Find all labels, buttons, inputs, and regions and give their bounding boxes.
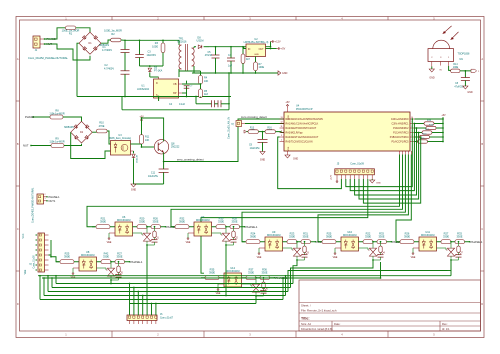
svg-text:390E: 390E [100,220,106,224]
svg-text:10uF/25v: 10uF/25v [250,147,261,150]
net label PHASE 2 [32,116,33,117]
wire [244,47,246,49]
svg-text:D: D [17,302,19,306]
wire [140,65,164,67]
wire [164,119,284,162]
bus wire long A2 [42,277,381,279]
svg-text:LNK62104: LNK62104 [137,88,149,91]
svg-text:PHASE-1: PHASE-1 [246,225,258,229]
bus wire long A1 [38,275,451,277]
svg-text:330E: 330E [231,220,237,224]
svg-text:C2IN-/AN5/RC1: C2IN-/AN5/RC1 [391,123,409,126]
triac Q3 [283,247,293,249]
svg-text:330E: 330E [302,235,308,239]
svg-text:KiCad E.D.A. kicad (8.0.8): KiCad E.D.A. kicad (8.0.8) [301,327,332,331]
svg-text:PHASE: PHASE [25,115,34,119]
svg-text:4N35_Zero_Crossing: 4N35_Zero_Crossing [109,137,132,140]
wire [107,131,110,144]
svg-text:Conn_01x09: Conn_01x09 [350,162,364,165]
wire [33,116,50,118]
svg-text:NUT: NUT [23,144,29,148]
bus wire L2 U10 [52,287,291,289]
wire [449,66,451,70]
svg-text:D: D [481,302,483,306]
power VEE U9 [259,247,265,249]
snubber capacitor U9 [304,253,306,255]
triac Q5 [97,267,107,269]
svg-text:A: A [481,57,483,61]
wire J5 pin8 to channel 7 [201,179,368,273]
net label NUT 2 [30,145,31,146]
wire [225,244,227,245]
power VEE U10 [335,247,341,249]
wire RA4 wrap to J5 pin2 [278,137,342,189]
svg-text:VCC: VCC [23,233,25,238]
svg-text:Conn_01x03_AN_IN: Conn_01x03_AN_IN [228,117,231,139]
snubber capacitor U12 [263,289,265,291]
net label PHASE-1 [274,277,275,278]
svg-text:OUT: OUT [259,49,264,51]
bus wire L4 U7 [44,295,286,297]
wire [64,144,82,146]
wire secondary ground rail [192,72,278,74]
wire [31,145,51,147]
svg-text:zero crossing_detect: zero crossing_detect [241,115,267,119]
svg-text:GND: GND [131,189,137,192]
snubber resistor U7 [233,226,235,228]
svg-text:Title:: Title: [301,316,310,320]
border column ticks [111,17,113,21]
snubber resistor U6 [154,226,156,228]
global label D [471,69,477,72]
svg-text:+12V: +12V [331,174,333,180]
svg-text:330E: 330E [261,271,267,275]
net label PHASE-1 [469,241,470,242]
svg-text:GND: GND [254,54,259,56]
net label PHASE [44,38,45,39]
wire [150,76,159,78]
svg-text:100E: 100E [259,66,265,69]
wire channel feed 1 [399,151,401,155]
power GND C8 [463,86,468,89]
svg-text:P1A/CCP1/RC5: P1A/CCP1/RC5 [391,141,409,144]
wire [266,48,277,50]
svg-text:PHASE-1: PHASE-1 [471,240,483,244]
power GND J5 [371,179,373,180]
resistor R16 [415,136,420,138]
power VEE U11 [413,247,419,249]
svg-text:1: 1 [44,198,45,200]
diode D4 [131,150,134,152]
svg-text:C: C [17,227,19,231]
svg-text:D: D [156,82,158,85]
border row ticks [16,100,20,102]
wire [92,131,96,133]
resistor R7 [255,57,257,63]
svg-text:FB: FB [173,83,176,86]
triac Q1 [133,232,143,234]
svg-text:Conn_01x07: Conn_01x07 [160,318,174,320]
power VEE U8 [73,267,79,269]
snubber capacitor U7 [233,238,235,240]
svg-text:390E: 390E [250,235,256,239]
wire J3 vertical [50,240,52,257]
power +12V J5 pin1 [336,181,338,183]
resistor R6 [242,47,244,54]
transistor Q8 [154,140,168,154]
svg-text:4k3: 4k3 [204,93,209,96]
wire [142,146,155,148]
wire [179,70,201,72]
wire J3 pin3 to channel U8 [49,255,60,262]
connector J1 [33,36,40,48]
svg-text:330E: 330E [378,235,384,239]
svg-text:330E: 330E [289,235,295,239]
resistor R18 [415,127,427,129]
svg-text:390E: 390E [64,255,70,259]
wire [101,40,111,43]
triac Q6 [242,283,252,285]
svg-text:VEE: VEE [257,256,262,259]
svg-text:BP: BP [173,92,177,95]
svg-text:Size: A4: Size: A4 [301,322,311,326]
wire RC0 [415,118,444,120]
title block [299,280,481,331]
wire ground return rail [122,109,229,111]
power VEE U12 [218,283,224,285]
wire channel feed 3 [404,151,406,155]
power VEE U7 [188,232,194,234]
MCU right pins [410,118,415,120]
svg-text:GND: GND [376,182,381,184]
snubber resistor U9 [304,241,306,243]
power GND C9 [260,152,265,155]
svg-text:R14: R14 [453,64,458,66]
net label NUT1 [46,200,47,201]
triac Q2 [212,232,222,234]
wire secondary rail [209,46,271,48]
svg-text:US1M: US1M [197,40,204,43]
svg-text:RA4/AN3/T1G/OSC2/CLKOUT: RA4/AN3/T1G/OSC2/CLKOUT [286,136,319,139]
svg-text:330E: 330E [248,271,254,275]
resistor R1 [65,26,75,30]
svg-text:B: B [481,142,483,146]
power GND [278,71,281,75]
power VEE U6 [109,232,115,234]
svg-text:TSOP1838: TSOP1838 [458,52,470,55]
capacitor C3 [139,40,141,54]
svg-text:Conn_DG452_PHASE+NUTURAL: Conn_DG452_PHASE+NUTURAL [28,56,68,60]
resistor R5 [200,84,202,89]
power GND U4 [287,151,289,155]
svg-text:330E: 330E [116,255,122,259]
power +5V [277,48,279,50]
wire channel feed 2 [402,151,404,155]
wire J5 pin runs [411,118,413,120]
snubber resistor U12 [263,277,265,279]
capacitor C7 [182,92,187,94]
net label NUT [44,43,45,44]
svg-text:P1B/C2OUT/RC4: P1B/C2OUT/RC4 [390,136,409,139]
bus wire L3 U11 [48,291,288,293]
snubber resistor U10 [380,241,382,243]
svg-text:2: 2 [44,194,45,196]
svg-text:EE1616: EE1616 [178,41,188,44]
svg-text:1N4148: 1N4148 [137,154,139,162]
IR arrows [443,26,452,34]
svg-text:P1D/AN6/RC2: P1D/AN6/RC2 [393,127,409,130]
wire [163,153,165,162]
snubber capacitor U10 [380,253,382,255]
power GND M1 [431,67,433,70]
svg-text:10uF/25v: 10uF/25v [148,175,159,178]
wire [142,118,164,141]
svg-text:4.7/400V: 4.7/400V [104,67,114,70]
svg-text:100E: 100E [152,45,158,48]
svg-text:470E: 470E [99,125,105,128]
svg-text:+12V: +12V [275,41,281,44]
zener diode D3 [149,66,151,67]
svg-text:13: 13 [280,117,282,119]
wire [110,279,112,280]
svg-text:110k-1w-MOR: 110k-1w-MOR [49,141,65,144]
svg-text:PHASE-1: PHASE-1 [131,260,143,264]
svg-text:PHASE-1: PHASE-1 [49,195,61,199]
wire [245,123,284,125]
svg-text:100E_1w_MOR: 100E_1w_MOR [104,30,122,33]
svg-text:GND: GND [429,77,435,80]
wire [192,66,194,73]
svg-text:330E: 330E [152,220,158,224]
wire [182,83,201,85]
resistor R3 [162,40,164,43]
svg-text:1uF: 1uF [228,64,233,67]
svg-text:File: Remote_5+2.kicad_sch: File: Remote_5+2.kicad_sch [301,308,337,312]
snubber capacitor U8 [118,273,120,275]
svg-text:VSS: VSS [288,146,290,151]
svg-text:11: 11 [281,126,283,128]
wire [63,117,82,121]
svg-text:470/16: 470/16 [205,54,213,57]
net label PHASE-1 [129,261,130,262]
svg-text:Rev:: Rev: [442,322,448,326]
resistor R17 [415,132,423,134]
svg-text:VEE: VEE [107,241,112,244]
net label PHASE-1 [244,226,245,227]
svg-text:RA3/MCLR/Vpp: RA3/MCLR/Vpp [286,132,304,135]
net label PHASE [165,226,166,227]
bus wire L1 U8/U9 [56,283,293,285]
wire [255,295,257,296]
svg-text:330E: 330E [103,255,109,259]
svg-text:MOC3021M: MOC3021M [81,254,94,257]
triac Q4 [359,247,369,249]
svg-text:4k7: 4k7 [246,58,251,61]
svg-text:2: 2 [281,140,282,142]
svg-text:GND: GND [293,158,298,160]
svg-text:Date:: Date: [334,322,341,326]
wire [45,44,91,60]
svg-text:Conn_DG452_PHASE+NUTURAL: Conn_DG452_PHASE+NUTURAL [32,187,35,223]
svg-text:4.7/400V: 4.7/400V [102,49,112,52]
svg-text:C: C [481,227,483,231]
svg-text:MOC3021M: MOC3021M [196,219,209,222]
svg-text:390E: 390E [326,235,332,239]
IR receiver M1 TSOP1838 [433,40,450,48]
wire [71,132,111,158]
svg-text:RA5/T1CKI/OSC1/CLKIN: RA5/T1CKI/OSC1/CLKIN [286,141,313,144]
svg-text:RA0/AN0/C1IN+/ICSPDAT/ULPWU: RA0/AN0/C1IN+/ICSPDAT/ULPWU [286,118,324,121]
svg-text:MOC3021M: MOC3021M [226,270,239,273]
svg-text:Conn_01x08: Conn_01x08 [34,255,36,269]
power GND 2 [134,183,164,185]
svg-text:102/2KV: 102/2KV [147,54,157,57]
resistor R15 [415,141,418,143]
wire [259,131,266,133]
resistor R11 [141,120,143,122]
svg-text:330E: 330E [218,220,224,224]
svg-text:P1C/AN7/RC3: P1C/AN7/RC3 [393,132,409,135]
svg-text:330E: 330E [443,235,449,239]
connector J6 [127,315,157,321]
svg-text:MOC3021M: MOC3021M [343,234,356,237]
wire [296,259,298,260]
wire [178,40,180,45]
svg-text:P7-1KA: P7-1KA [154,70,163,73]
net label PHASE [315,241,316,242]
svg-text:A: A [17,57,19,61]
svg-text:MOC3021M: MOC3021M [267,234,280,237]
svg-text:3: 3 [281,135,282,137]
bridge rectifier D1 [79,32,101,54]
snubber capacitor U6 [154,238,156,240]
svg-text:MDB10S: MDB10S [64,126,74,129]
svg-text:+5V: +5V [281,48,286,51]
svg-text:VEE: VEE [411,256,416,259]
MCU left pins [280,118,285,120]
wire [372,259,374,260]
bus wire L6 U12 [130,303,257,305]
wire main HV rail [121,39,125,41]
svg-text:C2IN+/AN4/RC0: C2IN+/AN4/RC0 [391,118,409,121]
svg-text:Sheet: /: Sheet: / [301,304,311,308]
svg-text:390E: 390E [404,235,410,239]
wire [450,259,452,260]
snubber resistor U8 [118,261,120,263]
svg-text:10K: 10K [204,80,209,83]
svg-text:12: 12 [280,122,282,124]
wire [76,28,90,32]
wire channel feed 4 [407,151,409,155]
svg-text:zero_crossing_detect: zero_crossing_detect [177,158,204,162]
wire primary ground rail [77,96,231,98]
svg-text:4: 4 [281,131,282,133]
wire MCU bottom pin to channel 6 [410,151,412,155]
svg-text:390E: 390E [209,271,215,275]
svg-text:330E: 330E [365,235,371,239]
bus wire L5 U6 [40,299,283,301]
snubber resistor U11 [458,241,460,243]
wire [276,131,285,134]
wire [45,28,66,39]
svg-text:VEE: VEE [333,256,338,259]
net label PHASE-1 J4 [46,196,47,197]
svg-text:GND: GND [467,91,473,94]
svg-text:Id: 1/1: Id: 1/1 [442,327,450,331]
svg-text:100E: 100E [453,67,459,69]
bridge rectifier D2 [71,121,93,143]
svg-text:NUT1: NUT1 [49,199,56,203]
wire bridge negative [77,43,79,96]
svg-text:IN: IN [248,49,251,51]
svg-text:RA2/AN2/T0CKI/INT/C1OUT: RA2/AN2/T0CKI/INT/C1OUT [286,127,317,130]
wire [131,143,142,145]
svg-text:VEE: VEE [216,292,221,295]
resistor R19 [415,123,425,125]
power +5V U4 [287,106,289,108]
svg-text:+5V: +5V [285,101,290,104]
resistor R4 [200,71,202,75]
power +12V [270,42,272,47]
svg-text:2N2222: 2N2222 [171,146,180,149]
svg-text:GND: GND [260,158,266,161]
svg-text:10K: 10K [145,139,150,142]
wire [186,93,188,97]
net label PHASE-1 [391,241,392,242]
svg-text:MOC3021M: MOC3021M [117,219,130,222]
svg-text:B: B [17,142,19,146]
svg-text:PIC16F676-I/P: PIC16F676-I/P [296,108,313,111]
svg-text:0.1uF: 0.1uF [179,103,186,106]
svg-text:RA1/AN1/C1IN-/Vref/ICSPCLK: RA1/AN1/C1IN-/Vref/ICSPCLK [286,123,319,126]
svg-text:+5V: +5V [441,114,446,117]
svg-text:GND: GND [282,72,288,75]
triac Q7 [437,247,447,249]
svg-text:VEE: VEE [186,241,191,244]
svg-text:330E: 330E [456,235,462,239]
wire [193,47,195,48]
svg-text:390E: 390E [179,220,185,224]
svg-text:VEE: VEE [25,269,27,274]
snubber capacitor U11 [458,253,460,255]
wire [146,244,148,245]
svg-text:MOC3021M: MOC3021M [421,234,434,237]
svg-text:330E: 330E [139,220,145,224]
wire [460,70,465,72]
